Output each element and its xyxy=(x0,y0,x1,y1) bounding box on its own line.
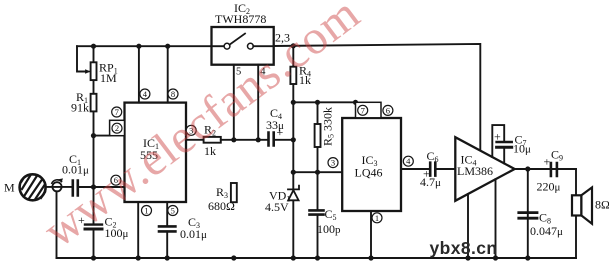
wire pin2 input xyxy=(94,135,110,137)
svg-text:C9: C9 xyxy=(551,148,563,163)
svg-text:3: 3 xyxy=(331,158,335,168)
svg-text:680Ω: 680Ω xyxy=(208,199,235,213)
svg-text:0.047μ: 0.047μ xyxy=(530,224,563,238)
svg-text:1M: 1M xyxy=(100,71,117,85)
node junction IC2 pin4 xyxy=(256,137,261,142)
node junction pin8 rail xyxy=(165,44,170,49)
capacitor C3 0.01u xyxy=(159,215,207,258)
wire line A vertical xyxy=(292,46,294,258)
node junction rail LM386 gnd1 xyxy=(465,255,470,260)
svg-text:4.5V: 4.5V xyxy=(265,200,289,214)
node junction C1/column xyxy=(91,184,96,189)
pin 1 label LQ46 xyxy=(372,213,382,223)
node junction R4 top xyxy=(291,43,296,48)
svg-text:LQ46: LQ46 xyxy=(355,166,383,180)
wire LM386 ground pin left xyxy=(467,194,469,258)
svg-text:100μ: 100μ xyxy=(105,226,129,240)
wire LQ46 pin4 output xyxy=(401,168,430,170)
resistor R5 330k xyxy=(315,107,336,147)
resistor R2 1k xyxy=(204,123,221,159)
wire line B vertical xyxy=(317,102,319,210)
wire top-left rail xyxy=(77,45,212,47)
svg-text:M: M xyxy=(4,181,15,195)
resistor R1 91k xyxy=(71,90,97,115)
wire top supply rail xyxy=(274,44,481,150)
wire C9 to speaker xyxy=(575,169,577,258)
op IC2 TWH8778 box xyxy=(212,1,274,65)
wire LQ46 pin3 xyxy=(293,171,342,173)
pin 3 label xyxy=(186,125,196,135)
pin 4 label xyxy=(140,89,150,99)
svg-text:7: 7 xyxy=(361,105,365,115)
node junction rail C8 xyxy=(525,255,530,260)
svg-text:4: 4 xyxy=(406,156,411,166)
wire pin6 input xyxy=(94,186,125,188)
svg-text:ybx8.cn: ybx8.cn xyxy=(430,238,498,258)
wire bottom ground rail xyxy=(57,257,577,259)
pin 4 label LQ46 xyxy=(403,156,413,166)
node junction pin3 wire / line B xyxy=(315,170,320,175)
node junction rail LM386 gnd2 xyxy=(493,255,498,260)
speaker 8ohm xyxy=(572,187,609,223)
node junction R2/IC2 pin5/R3 xyxy=(231,137,236,142)
svg-text:6: 6 xyxy=(386,105,390,115)
svg-text:R3: R3 xyxy=(216,185,228,200)
svg-text:8Ω: 8Ω xyxy=(595,198,609,212)
wire R2 to C4 xyxy=(221,139,267,141)
svg-text:2: 2 xyxy=(115,123,119,133)
wire 555 pin4 to rail xyxy=(138,46,140,102)
wire IC2 pin5 down xyxy=(233,65,235,140)
node junction rail 555 pin1 xyxy=(136,255,141,260)
pin 3 label LQ46 xyxy=(328,158,338,168)
resistor R3 680ohm xyxy=(208,183,237,213)
pin 6 label xyxy=(111,175,121,185)
pin 8 label xyxy=(168,89,178,99)
svg-text:5: 5 xyxy=(171,206,175,216)
svg-text:8: 8 xyxy=(171,89,175,99)
wire R4 junction to LQ46 pin7 xyxy=(293,101,355,103)
node junction RP1 top xyxy=(91,44,96,49)
wire 555 pin5 down xyxy=(166,202,168,226)
op-amp IC4 LM386 xyxy=(455,137,514,201)
node junction rail C5 xyxy=(315,255,320,260)
svg-text:7: 7 xyxy=(115,107,119,117)
node junction R4 bottom xyxy=(291,100,296,105)
node junction pin3 wire / line A xyxy=(291,170,296,175)
potentiometer RP1 xyxy=(85,61,118,86)
op IC3 LQ46 box xyxy=(342,118,401,211)
svg-text:1: 1 xyxy=(144,206,148,216)
svg-text:4: 4 xyxy=(143,89,148,99)
svg-text:+: + xyxy=(544,155,551,169)
capacitor C7 10u xyxy=(492,125,531,163)
svg-text:91k: 91k xyxy=(71,101,89,115)
capacitor C4 33u xyxy=(266,106,293,146)
pin 2 box xyxy=(110,120,125,135)
pin 7 box LQ46 xyxy=(356,102,382,118)
svg-text:100p: 100p xyxy=(317,222,341,236)
wire 555 pin8 to rail xyxy=(167,46,169,102)
node junction R5 top xyxy=(315,100,320,105)
node junction C4 / line A xyxy=(291,137,296,142)
svg-text:TWH8778: TWH8778 xyxy=(215,12,266,26)
pin 5 label xyxy=(168,206,178,216)
zener diode VD1 4.5V xyxy=(265,186,299,214)
svg-text:+: + xyxy=(494,130,501,144)
node junction pin2/column xyxy=(91,133,96,138)
node junction rail VD1 xyxy=(291,255,296,260)
node junction rail C2 xyxy=(91,255,96,260)
node junction pin7 box xyxy=(353,100,358,105)
capacitor C1 0.01u xyxy=(62,152,94,196)
wire LM386 ground pin right xyxy=(495,179,497,258)
svg-text:10μ: 10μ xyxy=(513,142,531,156)
pin 6 label LQ46 xyxy=(383,105,393,115)
svg-text:0.01μ: 0.01μ xyxy=(180,227,207,241)
capacitor C9 220u xyxy=(537,148,564,194)
wire mic ground drop xyxy=(56,191,58,258)
svg-text:C6: C6 xyxy=(427,149,439,164)
svg-text:220μ: 220μ xyxy=(537,180,561,194)
svg-text:C5: C5 xyxy=(325,207,337,222)
wire LQ46 pin1 down xyxy=(370,212,372,258)
pin 1 label xyxy=(142,206,152,216)
svg-text:R5 330k: R5 330k xyxy=(321,107,336,146)
wire IC2 pin4 down xyxy=(257,65,259,140)
node junction rail LQ46 pin1 xyxy=(368,255,373,260)
switch contacts inside IC2 xyxy=(212,45,225,47)
wire LM386 output xyxy=(515,168,576,170)
svg-text:4.7μ: 4.7μ xyxy=(420,175,441,189)
capacitor C5 100p xyxy=(310,207,342,258)
capacitor C6 4.7u xyxy=(420,149,455,189)
microphone M xyxy=(4,174,46,200)
node junction rail C3 xyxy=(165,255,170,260)
pin 7 label xyxy=(112,107,122,117)
svg-text:1: 1 xyxy=(375,213,379,223)
wire RP1 wiper branch xyxy=(77,46,86,71)
svg-text:+: + xyxy=(277,125,284,139)
node junction pin4 rail xyxy=(136,44,141,49)
node junction output/C8 xyxy=(525,166,530,171)
wire 555 pin3 output xyxy=(186,139,204,141)
op IC1 555 timer box xyxy=(125,103,187,202)
svg-text:0.01μ: 0.01μ xyxy=(62,163,89,177)
wire 555 pin1 down xyxy=(137,202,139,258)
svg-text:LM386: LM386 xyxy=(457,164,493,178)
capacitor C8 0.047u xyxy=(519,169,563,258)
wire vertical RP1/R1 column xyxy=(93,46,95,224)
node junction rail R3 xyxy=(231,255,236,260)
wire mic to C1 xyxy=(46,186,73,188)
resistor R4 1k xyxy=(290,64,311,88)
capacitor C2 100u electrolytic xyxy=(78,213,129,258)
mic terminal xyxy=(52,182,61,191)
